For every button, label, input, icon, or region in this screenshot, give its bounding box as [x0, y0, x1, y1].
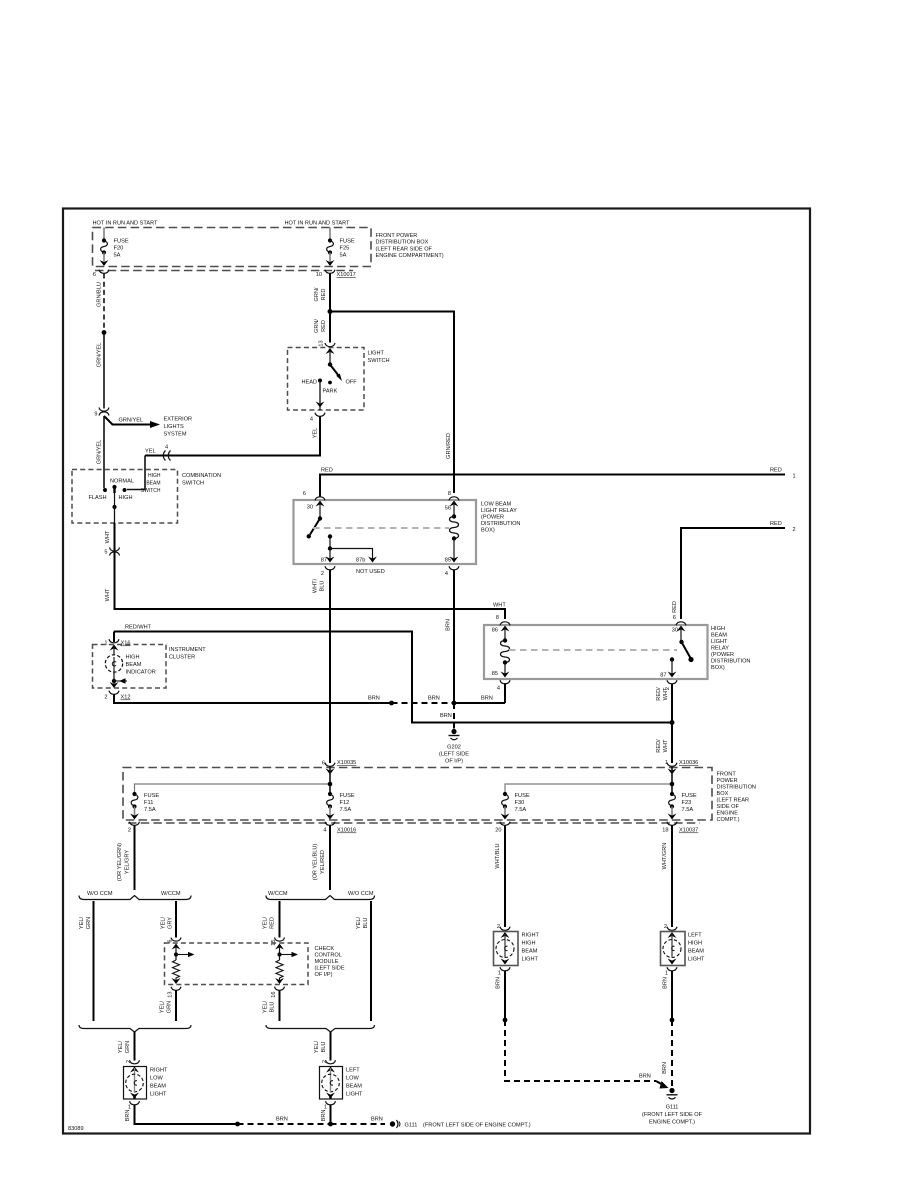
- left high beam light: [661, 932, 706, 966]
- connector pin 2 (left low beam light): [322, 1060, 336, 1064]
- svg-text:2: 2: [126, 1060, 132, 1063]
- svg-text:LIGHT: LIGHT: [346, 1092, 363, 1098]
- svg-text:WHT: WHT: [493, 603, 506, 609]
- svg-text:BLU: BLU: [320, 581, 326, 592]
- wire YEL/GRY branch w/ccm: [161, 901, 177, 938]
- connector pin 2 X12 (instrument cluster): [104, 691, 130, 701]
- svg-text:LOW BEAM: LOW BEAM: [481, 502, 511, 508]
- svg-text:(LEFT SIDE: (LEFT SIDE: [315, 966, 345, 972]
- svg-text:2: 2: [497, 924, 500, 930]
- connector pin 2 (relay 87 output): [665, 680, 677, 690]
- connector pin 8 (relay coil input): [448, 491, 459, 500]
- svg-text:RELAY: RELAY: [711, 646, 729, 652]
- svg-text:F30: F30: [515, 800, 525, 806]
- node splice BRN: [389, 701, 394, 706]
- inline connector pin 9: [94, 408, 109, 418]
- svg-text:YEL/: YEL/: [79, 916, 85, 929]
- svg-text:W/O CCM: W/O CCM: [348, 891, 374, 897]
- svg-text:X16: X16: [121, 641, 131, 647]
- high beam indicator lamp: [105, 645, 155, 681]
- wire BRN dashed bus segment: [238, 1117, 331, 1125]
- svg-text:GRN/RED: GRN/RED: [446, 433, 452, 459]
- svg-text:HEAD: HEAD: [301, 380, 317, 386]
- connector pin 8 (high beam relay coil): [496, 615, 510, 625]
- svg-text:2: 2: [793, 527, 796, 533]
- node splice BRN at left low beam: [328, 1122, 333, 1127]
- svg-text:GRN: GRN: [86, 917, 92, 929]
- wire BRN ground bus from cluster: [114, 695, 392, 704]
- label EXTERIOR LIGHTS SYSTEM: [164, 417, 193, 438]
- connector pin 16 (ccm output): [271, 987, 285, 998]
- svg-text:FUSE: FUSE: [340, 239, 355, 245]
- svg-text:BLU: BLU: [270, 1002, 276, 1013]
- svg-text:6: 6: [673, 615, 676, 621]
- svg-text:F12: F12: [340, 800, 350, 806]
- connector pin 20 (under F30): [495, 822, 510, 834]
- wire YEL/GRN from ccm 13: [160, 991, 177, 1022]
- svg-text:(LEFT REAR SIDE OF: (LEFT REAR SIDE OF: [376, 246, 433, 252]
- svg-text:BRN: BRN: [321, 1110, 327, 1122]
- svg-text:(OR YEL/GRN): (OR YEL/GRN): [117, 843, 123, 881]
- wire branch to exterior lights (GRN/YEL): [104, 416, 160, 428]
- svg-text:BLU: BLU: [363, 918, 369, 929]
- svg-text:10: 10: [316, 272, 322, 278]
- svg-text:BRN: BRN: [446, 619, 452, 631]
- svg-text:HIGH: HIGH: [522, 941, 536, 947]
- svg-text:6: 6: [168, 940, 174, 943]
- svg-text:87b: 87b: [356, 558, 365, 564]
- svg-text:COMPT.): COMPT.): [717, 817, 740, 823]
- svg-text:YEL/: YEL/: [314, 1040, 320, 1053]
- svg-text:RIGHT: RIGHT: [150, 1068, 168, 1074]
- svg-text:BEAM: BEAM: [150, 1084, 166, 1090]
- svg-text:BLU: BLU: [321, 1042, 327, 1053]
- rejoin brace (left low beam): [266, 1025, 375, 1032]
- svg-text:4: 4: [445, 571, 448, 577]
- wire WHT/GRN from F23 to left high beam: [662, 826, 672, 928]
- connector pin 1 X10036: [665, 760, 698, 775]
- fuse F11 7.5A: [130, 792, 159, 820]
- svg-text:YEL/: YEL/: [263, 916, 269, 929]
- svg-text:BEAM: BEAM: [711, 633, 727, 639]
- svg-text:WHT: WHT: [105, 530, 111, 543]
- high beam light relay box: [484, 625, 750, 679]
- connector pin 1 X16 (instrument cluster): [104, 639, 130, 646]
- svg-text:GRN/BLU: GRN/BLU: [97, 282, 103, 307]
- svg-text:GRN/YEL: GRN/YEL: [97, 440, 103, 465]
- connector pin 6 (under F20): [93, 270, 109, 278]
- svg-text:BRN: BRN: [276, 1117, 288, 1123]
- connector pin 6 (check control module): [168, 938, 182, 943]
- svg-text:YEL/: YEL/: [356, 916, 362, 929]
- wire GRN/BLU dashed (below pin 6): [97, 274, 105, 332]
- svg-text:W/CCM: W/CCM: [161, 891, 181, 897]
- svg-text:RED/: RED/: [656, 739, 662, 753]
- svg-text:20: 20: [495, 828, 501, 834]
- svg-text:8: 8: [448, 491, 451, 497]
- connector pin 2 (left high beam light): [664, 924, 677, 930]
- svg-text:(OR YEL/BLU): (OR YEL/BLU): [313, 844, 319, 881]
- svg-text:4: 4: [310, 417, 313, 423]
- relay switch pin 30: [672, 626, 694, 663]
- connector pin 15 (check control module): [271, 938, 285, 946]
- svg-text:GRN: GRN: [167, 1001, 173, 1013]
- wire feed to F11: [135, 767, 331, 795]
- svg-text:BRN: BRN: [663, 977, 669, 989]
- low beam light relay box: [294, 500, 521, 564]
- svg-text:DISTRIBUTION: DISTRIBUTION: [481, 521, 520, 527]
- svg-text:G202: G202: [447, 745, 461, 751]
- front power distribution box (bottom, fuses F11/F12/F30/F23): [123, 768, 756, 824]
- svg-text:RED: RED: [770, 468, 782, 474]
- svg-text:SIDE OF: SIDE OF: [717, 804, 740, 810]
- box label FRONT POWER DISTRIBUTION BOX: [376, 233, 444, 259]
- svg-text:BRN: BRN: [440, 713, 452, 719]
- svg-text:POWER: POWER: [717, 778, 738, 784]
- svg-text:7.5A: 7.5A: [682, 807, 694, 813]
- combination switch box: [72, 470, 221, 524]
- svg-text:LEFT: LEFT: [688, 933, 702, 939]
- svg-text:5: 5: [104, 550, 107, 556]
- svg-text:RED/WHT: RED/WHT: [125, 625, 152, 631]
- wire YEL/GRN branch w/o ccm: [79, 901, 94, 1021]
- connector pin 6 (relay 30 input): [303, 491, 325, 500]
- high beam relay coil pins 86/85: [492, 626, 510, 678]
- svg-text:FLASH: FLASH: [89, 495, 107, 501]
- relay coil pins 56/85: [445, 501, 459, 564]
- svg-text:X12: X12: [121, 695, 131, 701]
- svg-text:WHT: WHT: [663, 687, 669, 700]
- wire YEL/BLU from ccm 16: [263, 991, 280, 1022]
- svg-text:2: 2: [322, 1060, 328, 1063]
- connector pin 1 (left high beam light): [665, 967, 677, 976]
- svg-text:LOW: LOW: [346, 1076, 359, 1082]
- connector pin 2 (right high beam light): [497, 924, 510, 930]
- svg-text:87: 87: [321, 558, 327, 564]
- svg-text:BEAM: BEAM: [688, 949, 704, 955]
- svg-text:DISTRIBUTION BOX: DISTRIBUTION BOX: [376, 240, 429, 246]
- svg-text:1: 1: [793, 474, 796, 480]
- svg-text:FUSE: FUSE: [515, 793, 530, 799]
- svg-text:G111: G111: [666, 1105, 679, 1111]
- svg-text:SYSTEM: SYSTEM: [164, 432, 187, 438]
- wire YEL down to HIGH contact: [127, 456, 145, 490]
- ground G202: [439, 729, 469, 765]
- wire YEL/RED (OR YEL/BLU) from F12: [313, 826, 331, 891]
- border frame: [63, 209, 810, 1134]
- svg-text:RED: RED: [321, 320, 327, 332]
- svg-text:PARK: PARK: [323, 389, 338, 395]
- svg-text:WHT/: WHT/: [313, 578, 319, 593]
- connector pin 1 (right high beam light): [498, 967, 510, 976]
- split brace (right low beam wire): [79, 891, 191, 900]
- connector pin 4 (relay 85 output): [497, 680, 510, 691]
- connector pin 6 X10035: [322, 760, 356, 775]
- node splice BRN: [670, 1018, 675, 1023]
- ccm resistor (left low beam sense): [275, 944, 298, 985]
- node junction at F12 feed: [328, 782, 333, 787]
- wire RED/WHT from instrument cluster to relay output junction: [114, 625, 670, 723]
- svg-text:HIGH: HIGH: [126, 655, 140, 661]
- svg-text:2: 2: [104, 695, 107, 701]
- svg-text:LIGHTS: LIGHTS: [164, 424, 184, 430]
- node junction GRN/RED branch: [328, 309, 333, 314]
- svg-text:FUSE: FUSE: [340, 793, 355, 799]
- svg-text:BRN: BRN: [639, 1074, 651, 1080]
- light switch box: [288, 340, 390, 410]
- svg-text:RED: RED: [270, 917, 276, 929]
- svg-text:HIGH: HIGH: [148, 473, 161, 479]
- front power distribution box (top, fuses F20/F25): [93, 228, 372, 271]
- high beam relay internal dashed line: [509, 649, 677, 651]
- wire BRN dashed to ground G202: [440, 703, 454, 729]
- ground G111 (left, engine compt): [390, 1120, 531, 1129]
- right high beam light: [494, 932, 540, 966]
- connector pin 18 X10037 (under F23): [662, 822, 698, 834]
- svg-text:7.5A: 7.5A: [144, 807, 156, 813]
- instrument cluster box: [93, 645, 207, 689]
- split brace (left low beam wire): [266, 891, 375, 900]
- high beam switch contacts: [89, 479, 134, 524]
- svg-text:2: 2: [321, 571, 324, 577]
- svg-text:ENGINE: ENGINE: [717, 811, 739, 817]
- ccm resistor (right low beam sense): [172, 944, 195, 985]
- wire GRN/YEL solid down to connector 9: [97, 333, 105, 409]
- svg-text:NORMAL: NORMAL: [110, 479, 134, 485]
- svg-text:BRN: BRN: [125, 1110, 131, 1122]
- connector pin 10 X10017 (under F25): [316, 270, 356, 278]
- wire BRN left low beam to bus: [321, 1105, 331, 1124]
- svg-text:X10016: X10016: [337, 828, 356, 834]
- svg-text:OF I/P): OF I/P): [445, 759, 463, 765]
- svg-text:GRN/YEL: GRN/YEL: [97, 343, 103, 368]
- connector pin 1 (left low beam light): [324, 1101, 336, 1110]
- svg-text:CHECK: CHECK: [315, 946, 335, 952]
- svg-text:BRN: BRN: [371, 1117, 383, 1123]
- svg-text:F25: F25: [340, 246, 350, 252]
- svg-text:6: 6: [93, 272, 96, 278]
- svg-text:RED: RED: [770, 521, 782, 527]
- svg-text:CONTROL: CONTROL: [315, 953, 342, 959]
- svg-text:RED: RED: [321, 289, 327, 301]
- svg-text:4: 4: [323, 828, 326, 834]
- svg-text:YEL/RED: YEL/RED: [320, 850, 326, 874]
- svg-text:WHT/BLU: WHT/BLU: [495, 843, 501, 868]
- svg-text:(LEFT SIDE: (LEFT SIDE: [439, 752, 469, 758]
- svg-text:(LEFT REAR: (LEFT REAR: [717, 798, 750, 804]
- svg-text:1: 1: [665, 971, 668, 977]
- svg-text:2: 2: [664, 924, 667, 930]
- svg-text:5A: 5A: [340, 253, 347, 259]
- svg-text:8: 8: [496, 615, 499, 621]
- light switch internal contacts: [301, 348, 357, 410]
- svg-text:LIGHT RELAY: LIGHT RELAY: [481, 508, 517, 514]
- inline connector 4 on YEL wire: [163, 445, 170, 461]
- svg-text:YEL: YEL: [145, 449, 156, 455]
- wire BRN from relay 85 down to ground bus: [446, 570, 455, 702]
- relay internal actuation dashed line: [313, 527, 449, 529]
- svg-text:LIGHT: LIGHT: [711, 639, 728, 645]
- relay 87 / 87b not used stub: [321, 534, 385, 575]
- node splice BRN at G202 drop: [452, 701, 457, 706]
- svg-text:83089: 83089: [68, 1126, 84, 1132]
- connector pin 6 (relay 30 input): [673, 615, 686, 625]
- svg-text:9: 9: [94, 412, 97, 418]
- svg-text:BRN: BRN: [428, 696, 440, 702]
- svg-text:OF I/P): OF I/P): [315, 972, 333, 978]
- wire GRN/RED branch to low beam relay coil: [330, 312, 454, 494]
- svg-text:LIGHT: LIGHT: [368, 351, 385, 357]
- svg-text:FRONT POWER: FRONT POWER: [376, 233, 418, 239]
- svg-text:6: 6: [303, 491, 306, 497]
- fuse F12 7.5A: [326, 792, 355, 820]
- right low beam light: [124, 1067, 168, 1100]
- wire YEL from light switch down and left: [145, 417, 320, 456]
- connector pin 4 X10016 (under F12): [323, 822, 356, 834]
- svg-text:7.5A: 7.5A: [340, 807, 352, 813]
- wire BRN right low beam to ground bus: [125, 1105, 238, 1124]
- node junction at F23 feed: [670, 782, 675, 787]
- wire WHT/BLU from relay 87 to X10035: [313, 570, 331, 763]
- svg-text:HOT IN RUN AND START: HOT IN RUN AND START: [93, 221, 159, 227]
- svg-text:YEL/: YEL/: [118, 1040, 124, 1053]
- svg-text:2: 2: [128, 828, 131, 834]
- wire RED to off-page 2: [672, 521, 796, 619]
- connector pin 2 (relay 87 output): [321, 566, 335, 577]
- svg-text:(POWER: (POWER: [711, 652, 734, 658]
- svg-text:13: 13: [319, 340, 325, 346]
- svg-text:16: 16: [271, 992, 277, 998]
- svg-text:1: 1: [104, 641, 107, 647]
- relay 87 output contact: [660, 657, 676, 678]
- node splice BRN: [503, 1018, 508, 1023]
- left low beam light: [320, 1067, 364, 1100]
- svg-text:INSTRUMENT: INSTRUMENT: [169, 647, 206, 653]
- svg-text:FRONT: FRONT: [717, 772, 737, 778]
- svg-text:MODULE: MODULE: [315, 959, 339, 965]
- svg-text:DISTRIBUTION: DISTRIBUTION: [717, 785, 756, 791]
- svg-text:BEAM: BEAM: [522, 949, 538, 955]
- svg-text:LIGHT: LIGHT: [150, 1092, 167, 1098]
- svg-text:LEFT: LEFT: [346, 1068, 360, 1074]
- svg-text:5A: 5A: [114, 253, 121, 259]
- svg-text:COMBINATION: COMBINATION: [182, 473, 221, 479]
- svg-text:ENGINE COMPT.): ENGINE COMPT.): [649, 1120, 695, 1126]
- svg-text:YEL/: YEL/: [263, 1000, 269, 1013]
- svg-text:CLUSTER: CLUSTER: [169, 655, 195, 661]
- svg-text:4: 4: [497, 686, 500, 692]
- svg-text:BRN: BRN: [368, 696, 380, 702]
- wire BRN right high beam: [496, 971, 506, 1020]
- svg-text:INDICATOR: INDICATOR: [126, 670, 156, 676]
- svg-text:6: 6: [322, 761, 325, 767]
- svg-text:LIGHT: LIGHT: [688, 957, 705, 963]
- svg-text:DISTRIBUTION: DISTRIBUTION: [711, 659, 750, 665]
- node splice BRN bus: [235, 1122, 240, 1127]
- fuse F30 7.5A: [501, 792, 530, 820]
- svg-text:LOW: LOW: [150, 1076, 163, 1082]
- svg-text:ENGINE COMPARTMENT): ENGINE COMPARTMENT): [376, 253, 444, 259]
- check control module box: [165, 943, 345, 985]
- relay switch pin 30: [307, 501, 325, 539]
- svg-text:SWITCH: SWITCH: [368, 358, 390, 364]
- svg-text:WHT: WHT: [663, 739, 669, 752]
- svg-text:BEAM: BEAM: [346, 1084, 362, 1090]
- wire YEL/RED branch w/ccm: [263, 901, 280, 938]
- svg-text:BOX): BOX): [711, 665, 725, 671]
- svg-text:1: 1: [665, 760, 668, 766]
- wire YEL/GRY (OR YEL/GRN) from F11: [117, 826, 135, 891]
- ground G111 (front left side of engine compt): [642, 1088, 703, 1126]
- svg-text:13: 13: [168, 992, 174, 998]
- svg-text:LIGHT: LIGHT: [522, 957, 539, 963]
- svg-text:BRN: BRN: [496, 977, 502, 989]
- svg-text:BOX: BOX: [717, 791, 729, 797]
- svg-text:(FRONT LEFT SIDE OF ENGINE COM: (FRONT LEFT SIDE OF ENGINE COMPT.): [423, 1123, 531, 1129]
- svg-text:YEL/GRY: YEL/GRY: [125, 850, 131, 874]
- svg-text:FUSE: FUSE: [682, 793, 697, 799]
- wire WHT/BLU from F30 to right high beam: [495, 826, 505, 928]
- wire RED to off-page 1: [320, 468, 796, 498]
- svg-text:BRN: BRN: [662, 1062, 668, 1074]
- svg-text:SWITCH: SWITCH: [182, 481, 204, 487]
- svg-text:30: 30: [307, 505, 313, 511]
- svg-text:30: 30: [672, 628, 678, 634]
- svg-text:W/CCM: W/CCM: [268, 891, 288, 897]
- svg-text:GRN: GRN: [125, 1041, 131, 1053]
- svg-text:RED: RED: [321, 468, 333, 474]
- wire BRN dashed to ground G111: [662, 1020, 672, 1086]
- wire YEL/BLU branch w/o ccm: [356, 901, 371, 1021]
- fuse F23 7.5A: [668, 792, 697, 820]
- svg-text:FUSE: FUSE: [144, 793, 159, 799]
- svg-text:F23: F23: [682, 800, 692, 806]
- connector pin 13 (ccm output): [168, 987, 182, 998]
- svg-text:WHT: WHT: [105, 588, 111, 601]
- svg-text:GRN/: GRN/: [314, 319, 320, 333]
- svg-text:1: 1: [498, 971, 501, 977]
- inline connector pin 5 on WHT wire: [104, 548, 119, 556]
- wire RED/WHT from relay 87 to X10036: [656, 684, 672, 763]
- svg-text:(POWER: (POWER: [481, 515, 504, 521]
- svg-text:85: 85: [492, 671, 498, 677]
- svg-text:4: 4: [165, 445, 168, 451]
- svg-text:RED/: RED/: [656, 687, 662, 701]
- wire feed to F30: [505, 767, 672, 795]
- svg-text:7.5A: 7.5A: [515, 807, 527, 813]
- svg-text:YEL/: YEL/: [160, 1000, 166, 1013]
- wire GRN/RED from X10017 down to light switch: [314, 274, 330, 343]
- svg-text:FUSE: FUSE: [114, 239, 129, 245]
- node + other-circuits arrow inside cluster: [110, 678, 127, 688]
- wire BRN dashed to ground: [505, 1020, 669, 1089]
- fuse F25 5A: [326, 228, 355, 267]
- svg-text:YEL/: YEL/: [161, 916, 167, 929]
- node splice on left wire: [102, 330, 107, 335]
- svg-text:HIGH: HIGH: [711, 626, 725, 632]
- rejoin brace (right low beam): [79, 1025, 191, 1032]
- svg-text:X10035: X10035: [337, 760, 356, 766]
- wire YEL/BLU to left low beam light: [314, 1032, 331, 1061]
- wire GRN/YEL into combination switch: [97, 416, 105, 488]
- svg-text:W/O CCM: W/O CCM: [87, 891, 113, 897]
- svg-text:RED: RED: [672, 601, 678, 613]
- svg-text:GRY: GRY: [168, 917, 174, 929]
- svg-text:X10036: X10036: [679, 760, 698, 766]
- svg-text:NOT USED: NOT USED: [356, 569, 385, 575]
- connector pin 4 (light switch output): [310, 413, 325, 423]
- svg-text:56: 56: [445, 506, 451, 512]
